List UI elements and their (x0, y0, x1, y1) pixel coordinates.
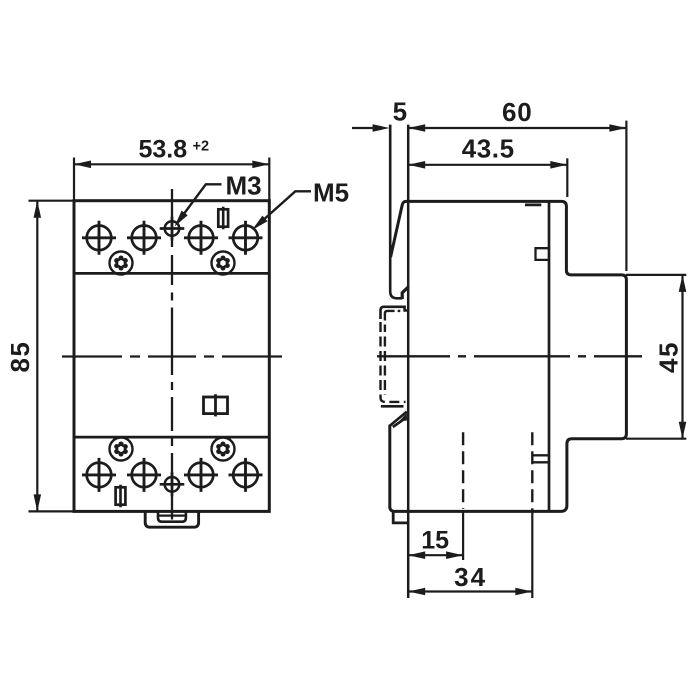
hidden edge 34 (531, 432, 533, 511)
hidden edge 15 (462, 432, 464, 509)
din slot upper wall (390, 125, 402, 299)
screw bottom 1 (82, 458, 116, 492)
dimension 5 (352, 127, 373, 129)
dimension 45 (626, 274, 686, 276)
screw top 3 (184, 221, 218, 255)
svg-text:60: 60 (502, 97, 533, 127)
svg-text:5: 5 (393, 97, 407, 127)
top lip line (525, 204, 541, 207)
body back wall line (407, 125, 410, 598)
din rail hidden edge outer (381, 322, 406, 402)
upper rail hook (402, 287, 408, 299)
side body outline (390, 201, 627, 511)
torx screw top right (212, 252, 235, 275)
bottom clip outer tab (145, 511, 198, 527)
label M3 leader (178, 184, 222, 222)
side horizontal centerline (377, 355, 642, 357)
dimension 43.5 (566, 158, 568, 197)
rail slot bottom face (381, 405, 404, 408)
svg-text:34: 34 (454, 562, 487, 592)
screw bottom 3 (184, 458, 218, 492)
screw top 4 (229, 221, 263, 255)
front bottom band line (74, 436, 269, 439)
window indicator icon (204, 394, 228, 416)
dimension 85 (29, 201, 77, 512)
screw top 1 (82, 221, 116, 255)
clip foot (393, 511, 408, 523)
screw bottom 4 (229, 458, 263, 492)
label M5 leader (256, 191, 312, 227)
svg-text:M3: M3 (226, 170, 262, 200)
dimension 60 (625, 121, 627, 271)
svg-text:53.8: 53.8 (139, 135, 188, 163)
vertical centerline (171, 189, 173, 520)
torx screw bottom left (110, 438, 133, 461)
terminal marker bottom (116, 485, 126, 508)
bottom clip inner line (158, 514, 186, 516)
inner ledge lines (532, 455, 549, 462)
dimension 53.8+2 (74, 158, 269, 203)
bottom clip inner tab (158, 511, 186, 521)
din rail hidden edge inner (384, 325, 386, 396)
svg-text:45: 45 (653, 341, 683, 373)
din rail hidden corner inner (385, 311, 400, 321)
screw top center M3 (160, 217, 185, 241)
svg-text:43.5: 43.5 (462, 134, 515, 164)
dimension 34 (531, 511, 533, 598)
horizontal centerline (62, 355, 282, 357)
svg-text:+2: +2 (193, 139, 210, 155)
front top band line (74, 272, 269, 275)
screw bottom center (160, 472, 185, 496)
torx screw top left (110, 252, 133, 275)
svg-text:85: 85 (5, 341, 35, 373)
bottom hook tooth (390, 412, 407, 427)
svg-text:M5: M5 (313, 178, 349, 208)
screw bottom 2 (127, 458, 161, 492)
front view body outline (74, 201, 269, 512)
screw top 2 (127, 221, 161, 255)
front face inner line (548, 201, 551, 511)
rail slot top face (381, 307, 409, 319)
svg-text:15: 15 (421, 527, 449, 555)
dimension 15 (462, 511, 464, 560)
torx screw bottom right (212, 438, 235, 461)
front notch (536, 248, 550, 260)
terminal marker top (218, 207, 228, 230)
